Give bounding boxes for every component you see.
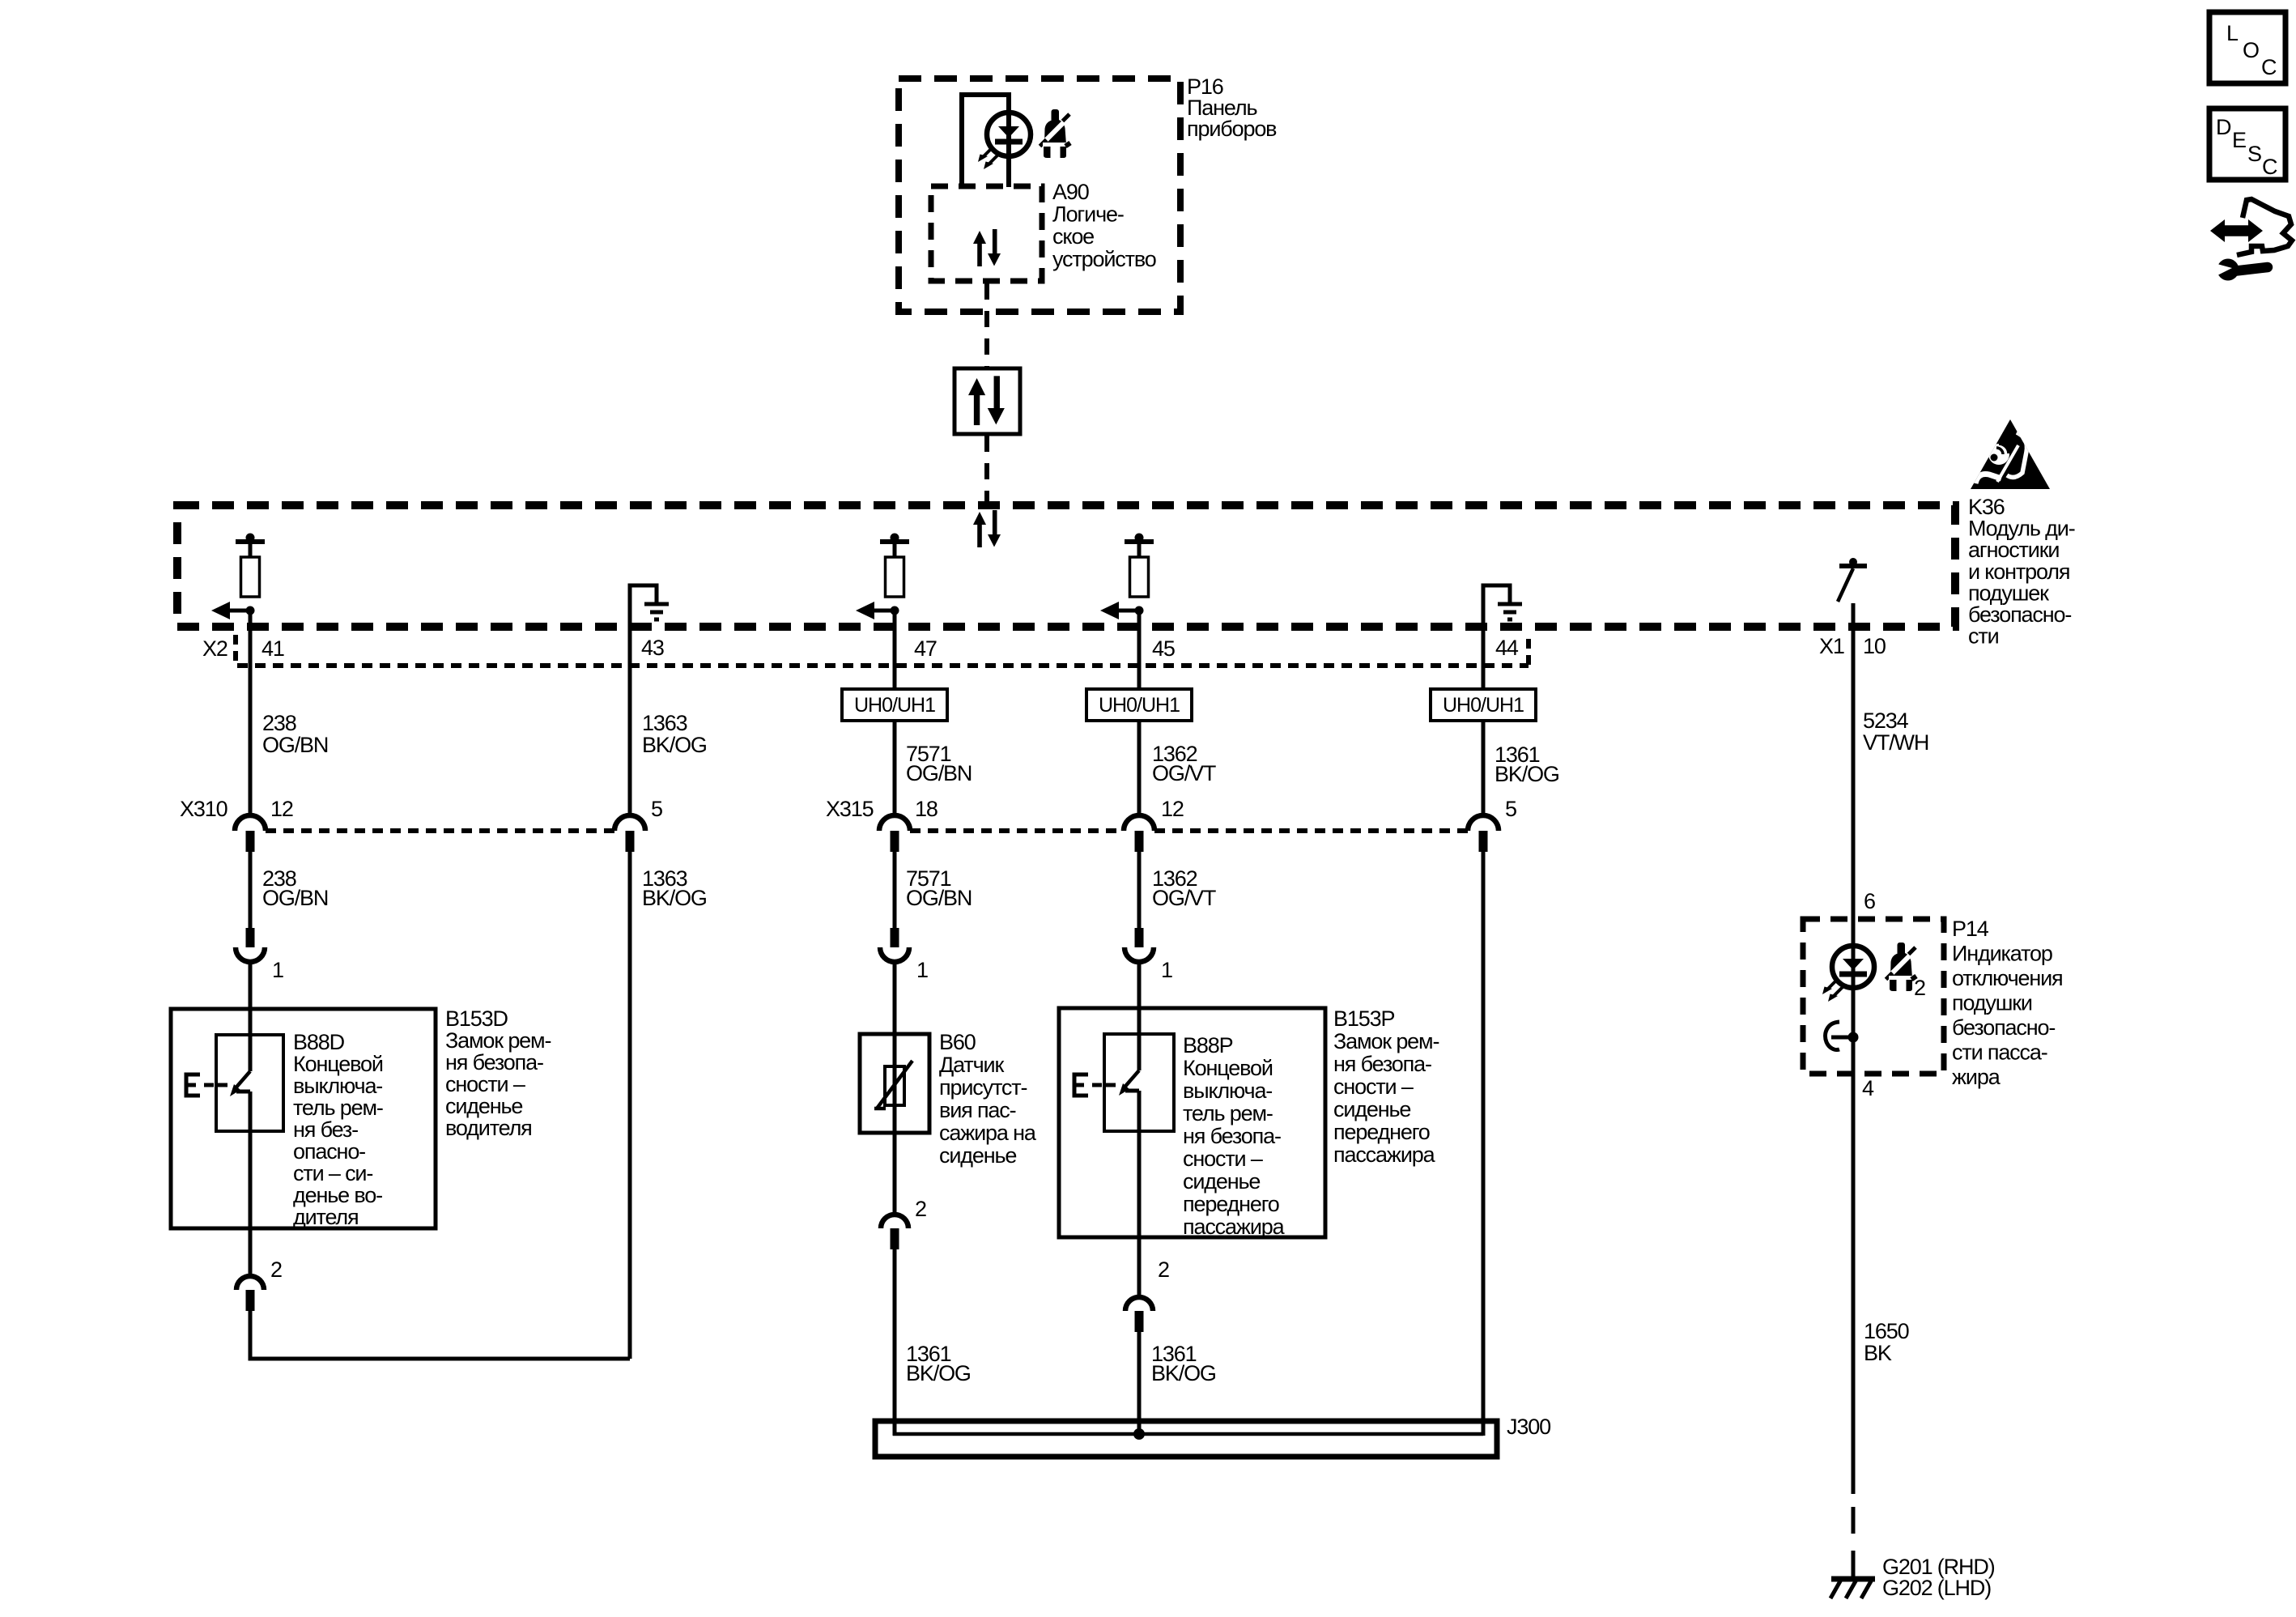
label wire 1361 BK/OG center bbox=[1151, 1342, 1216, 1385]
svg-text:переднего: переднего bbox=[1333, 1120, 1430, 1144]
svg-text:сности –: сности – bbox=[1183, 1147, 1263, 1171]
wire 238 pin41 to X310 bbox=[249, 611, 253, 815]
connector pin 1 of B153P bbox=[1125, 928, 1154, 962]
connector half-circle X310-12 bbox=[235, 815, 266, 852]
connector pin 1 of B60 bbox=[880, 928, 909, 962]
P14 indicator dashed box bbox=[1803, 919, 1944, 1074]
svg-text:сиденье: сиденье bbox=[1333, 1097, 1410, 1121]
label wire 1363 BK/OG lower bbox=[642, 866, 707, 910]
svg-text:B153P: B153P bbox=[1333, 1006, 1394, 1031]
svg-text:C: C bbox=[2261, 55, 2277, 79]
svg-text:12: 12 bbox=[1161, 797, 1184, 821]
svg-text:6: 6 bbox=[1864, 889, 1875, 913]
svg-text:UH0/UH1: UH0/UH1 bbox=[1443, 694, 1524, 717]
wire 1363 below X310 down to splice run bbox=[628, 852, 632, 1359]
label A90 Логическое устройство bbox=[1052, 180, 1156, 271]
wire 1362 pin45 down bbox=[1137, 611, 1142, 815]
svg-text:4: 4 bbox=[1862, 1076, 1874, 1100]
svg-text:1: 1 bbox=[272, 958, 283, 982]
label B153D Замок ремня безопасности сиденье водителя bbox=[445, 1006, 551, 1140]
label wire 7571 OG/BN lower bbox=[906, 866, 972, 910]
wire B88D pin2 to 1363 run bbox=[250, 1311, 630, 1359]
label wire 238 OG/BN upper bbox=[262, 711, 328, 757]
seat belt telltale icon in P16 bbox=[1040, 109, 1071, 158]
svg-text:OG/BN: OG/BN bbox=[262, 886, 328, 910]
LED lamp in P14 bbox=[1822, 946, 1874, 1002]
wire into B153D bbox=[249, 962, 253, 1047]
svg-text:L: L bbox=[2226, 21, 2239, 45]
svg-text:подушек: подушек bbox=[1968, 581, 2049, 605]
seat belt icon in P14 bbox=[1886, 943, 1917, 991]
option box UH0/UH1 on wire 1362 bbox=[1086, 689, 1192, 721]
svg-text:5: 5 bbox=[1505, 797, 1516, 821]
connector pin 2 of B60 bbox=[881, 1215, 908, 1249]
connector pin 1 of B153D bbox=[236, 928, 265, 962]
switch blade B88P bbox=[1119, 1032, 1139, 1096]
resistor R at pin 41 (pull-up inside K36) bbox=[236, 534, 265, 598]
svg-text:OG/BN: OG/BN bbox=[906, 886, 972, 910]
svg-text:водителя: водителя bbox=[445, 1116, 532, 1140]
label wire 1362 OG/VT upper bbox=[1152, 742, 1216, 785]
svg-text:BK/OG: BK/OG bbox=[906, 1361, 971, 1385]
svg-text:отключения: отключения bbox=[1952, 966, 2063, 990]
svg-text:денье во-: денье во- bbox=[293, 1183, 382, 1207]
svg-text:жира: жира bbox=[1952, 1065, 2001, 1089]
svg-text:сти: сти bbox=[1968, 624, 1999, 649]
connector pin 2 of B153D bbox=[236, 1276, 264, 1311]
disable switch symbol in P14 bbox=[1826, 1022, 1859, 1050]
svg-text:ское: ское bbox=[1052, 224, 1094, 249]
B88D switch box bbox=[216, 1035, 283, 1131]
svg-text:1: 1 bbox=[1161, 958, 1172, 982]
svg-text:S: S bbox=[2247, 142, 2262, 166]
svg-text:BK/OG: BK/OG bbox=[642, 733, 707, 757]
wire B88P pin2 bbox=[1137, 1091, 1142, 1297]
wire B88P pin2 to J300 bbox=[1137, 1332, 1142, 1436]
junction dot J300 bbox=[1133, 1428, 1145, 1440]
svg-text:устройство: устройство bbox=[1052, 247, 1156, 271]
svg-text:ня безопа-: ня безопа- bbox=[1333, 1052, 1431, 1076]
switch inside K36 at pin X1-10 bbox=[1838, 558, 1867, 602]
svg-text:безопасно-: безопасно- bbox=[1952, 1015, 2055, 1040]
svg-text:приборов: приборов bbox=[1187, 117, 1277, 141]
svg-text:выключа-: выключа- bbox=[1183, 1079, 1272, 1103]
svg-text:47: 47 bbox=[914, 636, 937, 661]
connector X2 dashed line bbox=[236, 635, 1529, 666]
label B60 Датчик присутствия пассажира на сиденье bbox=[939, 1030, 1037, 1168]
switch blade B88D bbox=[230, 1033, 250, 1096]
svg-text:UH0/UH1: UH0/UH1 bbox=[1099, 694, 1180, 717]
LOC legend box bbox=[2209, 12, 2285, 83]
svg-text:B88D: B88D bbox=[293, 1030, 345, 1054]
label B88P Концевой выключатель ремня безопасности bbox=[1183, 1033, 1286, 1239]
svg-text:ня без-: ня без- bbox=[293, 1117, 358, 1142]
resistor R at pin 45 (pull-up inside K36) bbox=[1125, 534, 1154, 598]
label K36 Модуль диагностики и контроля подушек безопасности bbox=[1968, 495, 2075, 649]
svg-text:12: 12 bbox=[270, 797, 293, 821]
option box UH0/UH1 on wire 7571 bbox=[842, 689, 947, 721]
LED indicator lamp in P16 bbox=[978, 113, 1031, 169]
J300 splice pack bbox=[875, 1421, 1497, 1457]
label wire 238 OG/BN lower bbox=[262, 866, 328, 910]
svg-text:подушки: подушки bbox=[1952, 991, 2032, 1015]
B60 passenger presence sensor box bbox=[860, 1034, 929, 1133]
svg-text:пассажира: пассажира bbox=[1333, 1143, 1436, 1167]
svg-text:Замок рем-: Замок рем- bbox=[1333, 1029, 1439, 1053]
svg-text:Датчик: Датчик bbox=[939, 1053, 1004, 1077]
connector half-circle X310-5 right bbox=[1468, 815, 1499, 852]
service connector + wrench icon bbox=[2210, 199, 2292, 281]
label P14 Индикатор отключения подушки безопасности пассажира bbox=[1952, 917, 2063, 1089]
svg-text:ня безопа-: ня безопа- bbox=[445, 1050, 543, 1074]
connector pin 2 of B153P bbox=[1125, 1297, 1153, 1332]
svg-text:выключа-: выключа- bbox=[293, 1074, 382, 1098]
mechanical link E for B88P bbox=[1074, 1074, 1116, 1096]
svg-text:UH0/UH1: UH0/UH1 bbox=[854, 694, 935, 717]
wire B60 pin2 bbox=[893, 1133, 897, 1215]
svg-text:сиденье: сиденье bbox=[445, 1094, 522, 1118]
wire B88D pin2 bbox=[249, 1091, 253, 1276]
svg-text:J300: J300 bbox=[1507, 1415, 1550, 1439]
wire 1363 pin43 down bbox=[628, 814, 632, 818]
B153D seat belt buckle housing box bbox=[171, 1009, 436, 1228]
svg-text:дителя: дителя bbox=[293, 1205, 359, 1229]
svg-text:10: 10 bbox=[1863, 634, 1886, 658]
wire 1362 below X315 bbox=[1137, 852, 1142, 928]
svg-text:сти – си-: сти – си- bbox=[293, 1161, 372, 1185]
svg-text:2: 2 bbox=[915, 1197, 926, 1221]
svg-text:B153D: B153D bbox=[445, 1006, 508, 1031]
wire 5234 pin X1-10 down to P14 and G201 bbox=[1852, 603, 1856, 1577]
svg-text:агностики: агностики bbox=[1968, 538, 2059, 562]
serial data interface box bbox=[955, 368, 1020, 434]
chassis ground G201/G202 bbox=[1830, 1579, 1875, 1598]
svg-text:сиденье: сиденье bbox=[1183, 1169, 1260, 1194]
svg-text:5234: 5234 bbox=[1863, 709, 1909, 733]
svg-text:1: 1 bbox=[916, 958, 928, 982]
svg-text:D: D bbox=[2216, 115, 2232, 139]
svg-text:41: 41 bbox=[261, 636, 284, 661]
signal arrow at R at pin 47 bbox=[856, 602, 899, 619]
svg-text:X1: X1 bbox=[1819, 634, 1844, 658]
wire 7571 below X315 bbox=[893, 852, 897, 928]
signal arrow at R at pin 45 bbox=[1100, 602, 1144, 619]
svg-text:2: 2 bbox=[270, 1257, 282, 1282]
svg-text:OG/VT: OG/VT bbox=[1152, 886, 1216, 910]
P16 instrument panel dashed box bbox=[899, 79, 1180, 312]
resistor R at pin 47 (pull-up inside K36) bbox=[880, 534, 909, 598]
ground symbol at pin 44 inside K36 bbox=[1483, 585, 1522, 815]
svg-text:VT/WH: VT/WH bbox=[1863, 730, 1928, 755]
connector X310/X315 dashed line bbox=[266, 828, 1468, 833]
connector half-circle X315-12 bbox=[1124, 815, 1154, 852]
svg-text:BK/OG: BK/OG bbox=[1495, 762, 1559, 786]
svg-text:E: E bbox=[2232, 128, 2247, 152]
svg-text:A90: A90 bbox=[1052, 180, 1089, 204]
svg-text:X310: X310 bbox=[180, 797, 227, 821]
option box UH0/UH1 on wire 1361 bbox=[1431, 689, 1536, 721]
svg-text:и контроля: и контроля bbox=[1968, 560, 2069, 584]
wire 238 below X310 bbox=[249, 852, 253, 928]
wire B60 pin2 to J300 bbox=[893, 1249, 897, 1436]
svg-text:44: 44 bbox=[1495, 636, 1519, 660]
svg-text:45: 45 bbox=[1152, 636, 1175, 661]
svg-text:опасно-: опасно- bbox=[293, 1139, 365, 1164]
serial data arrows inside A90 bbox=[973, 229, 1001, 266]
svg-text:ня безопа-: ня безопа- bbox=[1183, 1124, 1281, 1148]
B153P seat belt buckle housing box bbox=[1059, 1008, 1325, 1237]
svg-text:сности –: сности – bbox=[445, 1072, 525, 1096]
svg-text:238: 238 bbox=[262, 711, 296, 735]
svg-text:тель рем-: тель рем- bbox=[1183, 1101, 1273, 1126]
mechanical link E for B88D bbox=[186, 1074, 227, 1096]
svg-text:Индикатор: Индикатор bbox=[1952, 942, 2052, 966]
serial data arrows inside K36 bbox=[973, 510, 1001, 547]
wire into B153P bbox=[1137, 962, 1142, 1046]
svg-text:сажира на: сажира на bbox=[939, 1121, 1037, 1145]
svg-text:Модуль ди-: Модуль ди- bbox=[1968, 517, 2075, 541]
svg-text:2: 2 bbox=[1914, 976, 1925, 1000]
dashed serial data wire P16 to K36 bbox=[984, 283, 989, 508]
label wire 1361 BK/OG left bbox=[906, 1342, 971, 1385]
svg-text:пассажира: пассажира bbox=[1183, 1215, 1286, 1239]
label wire 7571 OG/BN upper bbox=[906, 742, 972, 785]
serial data arrows inside interface box bbox=[968, 376, 1005, 425]
label B88D Концевой выключатель ремня безопасности bbox=[293, 1030, 383, 1229]
A90 logic device dashed box bbox=[931, 186, 1042, 281]
wire 7571 pin47 down bbox=[893, 611, 897, 815]
wire into B60 bbox=[893, 962, 897, 1133]
svg-text:1363: 1363 bbox=[642, 711, 687, 735]
svg-text:C: C bbox=[2262, 155, 2278, 179]
label wire 5234 VT/WH bbox=[1863, 709, 1928, 755]
connector half-circle X315-18 bbox=[879, 815, 910, 852]
svg-text:OG/BN: OG/BN bbox=[262, 733, 328, 757]
svg-text:B88P: B88P bbox=[1183, 1033, 1233, 1057]
svg-text:присутст-: присутст- bbox=[939, 1075, 1027, 1100]
svg-text:переднего: переднего bbox=[1183, 1192, 1279, 1216]
label wire 1363 BK/OG upper bbox=[642, 711, 707, 757]
svg-text:безопасно-: безопасно- bbox=[1968, 602, 2071, 627]
svg-text:5: 5 bbox=[651, 797, 662, 821]
ground symbol at pin 43 inside K36 bbox=[630, 585, 669, 815]
svg-text:Концевой: Концевой bbox=[293, 1052, 383, 1076]
svg-text:O: O bbox=[2243, 38, 2260, 62]
label P16 Панель приборов bbox=[1187, 74, 1277, 141]
label G201 G202 bbox=[1882, 1555, 1995, 1600]
label wire 1361 BK/OG upper bbox=[1495, 743, 1559, 786]
K36 SDM dashed box bbox=[177, 505, 1955, 627]
label wire 1362 OG/VT lower bbox=[1152, 866, 1216, 910]
svg-text:сности –: сности – bbox=[1333, 1074, 1414, 1099]
svg-text:Концевой: Концевой bbox=[1183, 1056, 1273, 1080]
svg-text:2: 2 bbox=[1158, 1257, 1169, 1282]
label B153P Замок ремня безопасности сиденье переднего пассажира bbox=[1333, 1006, 1439, 1167]
svg-text:K36: K36 bbox=[1968, 495, 2005, 519]
svg-text:сти пасса-: сти пасса- bbox=[1952, 1040, 2047, 1065]
svg-text:P14: P14 bbox=[1952, 917, 1989, 941]
svg-text:G202 (LHD): G202 (LHD) bbox=[1882, 1576, 1991, 1600]
svg-text:BK/OG: BK/OG bbox=[1151, 1361, 1216, 1385]
wire 1361 below X310 to J300 bbox=[1482, 852, 1486, 1436]
svg-text:OG/VT: OG/VT bbox=[1152, 761, 1216, 785]
svg-text:BK/OG: BK/OG bbox=[642, 886, 707, 910]
svg-text:сиденье: сиденье bbox=[939, 1143, 1016, 1168]
svg-text:Логиче-: Логиче- bbox=[1052, 202, 1124, 227]
svg-text:OG/BN: OG/BN bbox=[906, 761, 972, 785]
DESC legend box bbox=[2209, 109, 2285, 180]
lamp frame wire bbox=[962, 95, 1009, 187]
svg-text:X2: X2 bbox=[202, 636, 227, 661]
svg-text:тель рем-: тель рем- bbox=[293, 1096, 383, 1120]
B88P switch box bbox=[1104, 1034, 1174, 1131]
label wire 1650 BK bbox=[1864, 1319, 1909, 1365]
svg-text:BK: BK bbox=[1864, 1341, 1892, 1365]
connector half-circle X310-5 bbox=[614, 815, 645, 852]
svg-text:43: 43 bbox=[641, 636, 664, 660]
svg-text:1650: 1650 bbox=[1864, 1319, 1909, 1343]
svg-text:18: 18 bbox=[915, 797, 938, 821]
pressure sensor symbol bbox=[874, 1061, 912, 1108]
signal arrow at R at pin 41 bbox=[211, 602, 255, 619]
svg-text:B60: B60 bbox=[939, 1030, 976, 1054]
svg-text:X315: X315 bbox=[826, 797, 874, 821]
svg-text:вия пас-: вия пас- bbox=[939, 1098, 1016, 1122]
svg-text:Замок рем-: Замок рем- bbox=[445, 1028, 551, 1053]
